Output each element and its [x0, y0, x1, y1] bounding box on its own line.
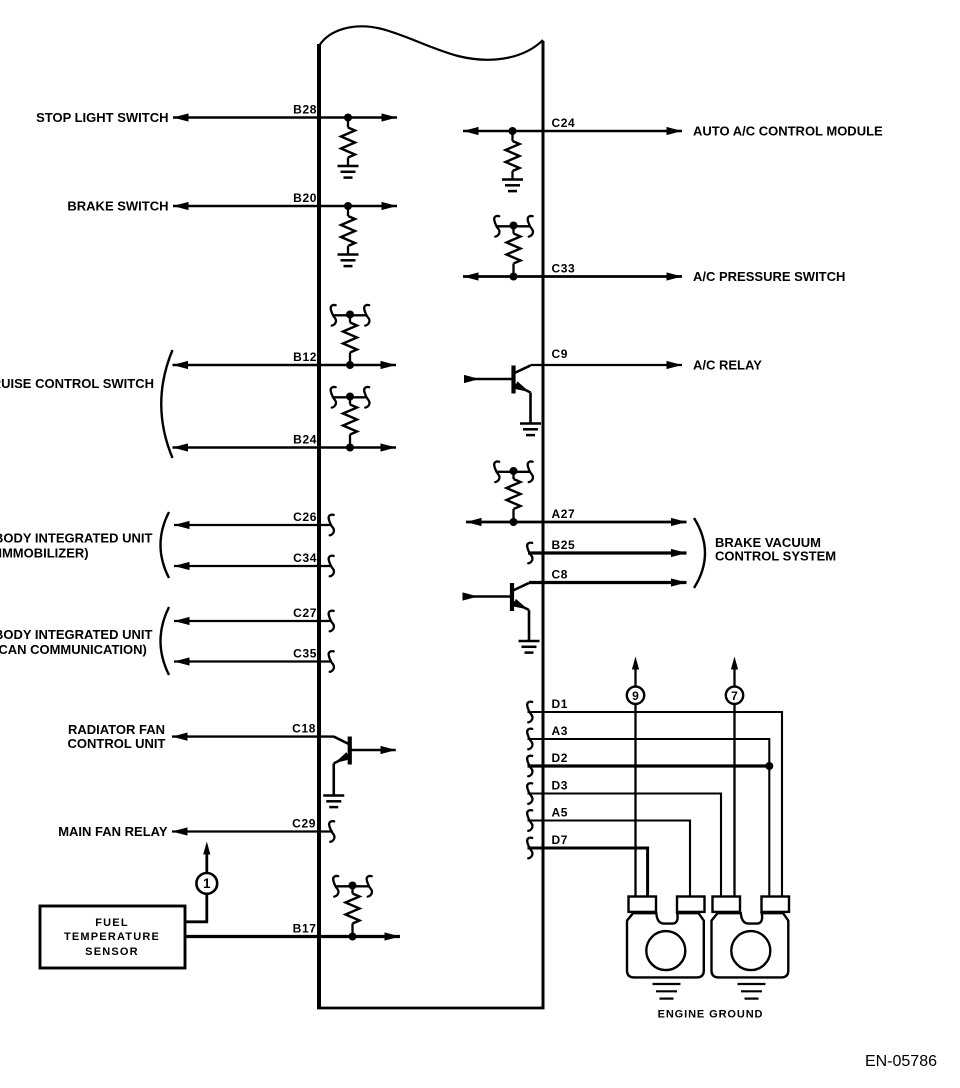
- svg-text:SENSOR: SENSOR: [85, 946, 139, 958]
- svg-text:B20: B20: [293, 191, 317, 205]
- svg-text:ENGINE GROUND: ENGINE GROUND: [658, 1009, 764, 1021]
- svg-text:B17: B17: [293, 922, 317, 936]
- svg-text:FUEL: FUEL: [95, 917, 129, 929]
- svg-text:C26: C26: [293, 510, 317, 524]
- svg-text:D2: D2: [552, 751, 569, 765]
- svg-text:A/C RELAY: A/C RELAY: [693, 358, 762, 373]
- svg-text:C35: C35: [293, 647, 317, 661]
- svg-text:C18: C18: [292, 722, 316, 736]
- svg-text:A5: A5: [552, 806, 569, 820]
- svg-text:RADIATOR FAN: RADIATOR FAN: [68, 722, 165, 737]
- svg-text:A3: A3: [552, 724, 569, 738]
- svg-text:B24: B24: [293, 433, 317, 447]
- svg-text:CRUISE CONTROL SWITCH: CRUISE CONTROL SWITCH: [0, 376, 154, 391]
- svg-text:CONTROL SYSTEM: CONTROL SYSTEM: [715, 549, 836, 564]
- svg-text:EN-05786: EN-05786: [865, 1053, 937, 1070]
- svg-text:1: 1: [203, 876, 211, 891]
- svg-text:MAIN FAN RELAY: MAIN FAN RELAY: [58, 824, 168, 839]
- svg-text:C9: C9: [552, 347, 569, 361]
- svg-text:9: 9: [632, 689, 639, 703]
- svg-text:D7: D7: [552, 833, 569, 847]
- svg-text:A27: A27: [552, 507, 576, 521]
- svg-text:BRAKE SWITCH: BRAKE SWITCH: [67, 199, 168, 214]
- svg-text:C27: C27: [293, 606, 317, 620]
- svg-text:BODY INTEGRATED UNIT: BODY INTEGRATED UNIT: [0, 627, 152, 642]
- svg-text:CONTROL UNIT: CONTROL UNIT: [68, 736, 166, 751]
- svg-text:C34: C34: [293, 551, 317, 565]
- svg-text:(CAN COMMUNICATION): (CAN COMMUNICATION): [0, 642, 147, 657]
- svg-text:C33: C33: [552, 262, 576, 276]
- svg-text:BODY INTEGRATED UNIT: BODY INTEGRATED UNIT: [0, 531, 152, 546]
- svg-text:C29: C29: [292, 817, 316, 831]
- svg-text:(IMMOBILIZER): (IMMOBILIZER): [0, 546, 89, 561]
- svg-text:TEMPERATURE: TEMPERATURE: [64, 931, 160, 943]
- svg-text:D1: D1: [552, 697, 569, 711]
- svg-text:B12: B12: [293, 350, 317, 364]
- svg-text:A/C PRESSURE SWITCH: A/C PRESSURE SWITCH: [693, 269, 845, 284]
- svg-text:C24: C24: [552, 116, 576, 130]
- svg-text:C8: C8: [552, 568, 569, 582]
- svg-text:B28: B28: [293, 103, 317, 117]
- svg-text:D3: D3: [552, 779, 569, 793]
- svg-text:7: 7: [731, 689, 738, 703]
- svg-text:B25: B25: [552, 538, 576, 552]
- svg-text:STOP LIGHT SWITCH: STOP LIGHT SWITCH: [36, 110, 168, 125]
- svg-text:AUTO A/C CONTROL MODULE: AUTO A/C CONTROL MODULE: [693, 124, 883, 139]
